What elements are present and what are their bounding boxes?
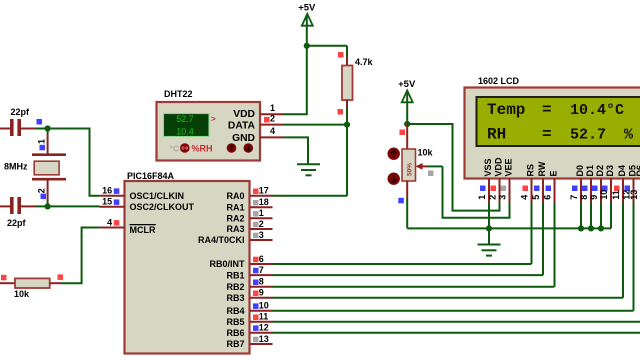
DHT22 mode button [180, 143, 190, 153]
net state square R1 right [58, 274, 64, 280]
svg-text:RS: RS [525, 164, 535, 177]
wire LCD D2 down [600, 203, 602, 229]
capacitor C1 22pf [0, 119, 36, 136]
svg-text:10k: 10k [14, 289, 30, 299]
wire RA0 row [273, 195, 348, 197]
svg-text:OSC2/CLKOUT: OSC2/CLKOUT [130, 202, 195, 212]
wire LCD VSS down [488, 203, 490, 229]
LCD pin 8 state square [582, 186, 588, 192]
svg-text:D6: D6 [635, 165, 640, 177]
svg-text:Temp: Temp [487, 101, 525, 119]
svg-text:15: 15 [102, 197, 112, 207]
pin 15 OSC2/CLKOUT stub [99, 206, 124, 208]
svg-text:2: 2 [488, 195, 498, 200]
resistor R1 10k [0, 278, 62, 288]
svg-text:4: 4 [520, 195, 530, 200]
pin 4 state square [114, 220, 120, 226]
LCD pin 9 D2 stub [600, 179, 602, 203]
svg-text:VDD: VDD [233, 109, 255, 120]
svg-text:11: 11 [259, 312, 269, 322]
svg-text:D3: D3 [605, 165, 615, 177]
svg-text:DHT22: DHT22 [164, 89, 193, 99]
pin 10 RB4 stub [250, 310, 273, 312]
svg-text:4.7k: 4.7k [355, 57, 374, 67]
svg-text:MCLR: MCLR [130, 225, 156, 235]
DHT22 up button [227, 143, 237, 153]
LCD pin 11 D4 stub [622, 179, 624, 203]
svg-text:8MHz: 8MHz [4, 162, 28, 172]
pin 17 state square [253, 189, 259, 195]
wire C1 to node OSC1 [36, 128, 48, 130]
svg-text:RH: RH [487, 126, 506, 144]
pin 13 RB7 stub [250, 343, 273, 345]
LCD screen [477, 97, 640, 146]
svg-text:2: 2 [259, 219, 264, 229]
svg-text:10: 10 [259, 301, 269, 311]
svg-text:RW: RW [537, 161, 547, 176]
svg-text:9: 9 [589, 195, 599, 200]
pin 2 RA3 stub [250, 228, 273, 230]
svg-text:RA3: RA3 [226, 224, 244, 234]
LCD pin 12 D5 stub [633, 179, 635, 203]
pin 7 RB1 stub [250, 274, 273, 276]
junction node OSC2 bottom [45, 203, 51, 209]
svg-text:DATA: DATA [228, 120, 256, 131]
svg-text:RB6: RB6 [226, 328, 244, 338]
svg-text:4: 4 [107, 217, 112, 227]
svg-text:7: 7 [259, 265, 264, 275]
svg-text:RB7: RB7 [226, 339, 244, 349]
svg-text:D1: D1 [585, 165, 595, 177]
wire bus to ground symbol [488, 228, 490, 243]
crystal X1 [32, 129, 66, 207]
junction bus D2 [598, 225, 604, 231]
power +5V pot [398, 79, 416, 102]
svg-text:OSC1/CLKIN: OSC1/CLKIN [130, 191, 185, 201]
svg-text:1: 1 [37, 139, 47, 144]
pin 8 state square [253, 280, 259, 286]
svg-text:10.4°C: 10.4°C [570, 102, 624, 119]
wire DHT22 DATA to node [284, 124, 347, 126]
svg-text:D4: D4 [617, 165, 627, 177]
svg-text:RB5: RB5 [226, 317, 244, 327]
wire LCD D4 down [622, 203, 624, 298]
capacitor C2 22pf [0, 197, 36, 214]
LCD pin 9 state square [592, 186, 598, 192]
junction node OSC1 top [45, 125, 51, 131]
wire +5V to DHT22 VDD [284, 46, 307, 114]
pin 7 state square [253, 268, 259, 274]
wire LCD D0 down [580, 203, 582, 229]
svg-text:=: = [542, 101, 552, 119]
wire node to PIC pin15 [36, 205, 99, 207]
wire bus up to LCD D3 [610, 203, 612, 229]
wire +5V stem [306, 14, 308, 46]
pin 8 RB2 stub [250, 286, 273, 288]
net state square R2 top [338, 52, 344, 58]
net state square RV1 wiper [428, 171, 434, 177]
LCD pin 1 state square [480, 186, 486, 192]
wire RB3 to D4 [273, 297, 624, 299]
junction +5V pot node [404, 121, 410, 127]
pin 1 state square [253, 211, 259, 217]
svg-text:RB4: RB4 [226, 306, 244, 316]
svg-text:3: 3 [498, 195, 508, 200]
junction bus D0 [578, 225, 584, 231]
svg-text:3: 3 [259, 230, 264, 240]
svg-text:RA2: RA2 [226, 214, 244, 224]
wire DHT22 GND to ground [284, 137, 308, 163]
sensor DHT22 body [157, 102, 261, 161]
svg-text:4: 4 [270, 126, 275, 136]
svg-text:8: 8 [259, 277, 264, 287]
wire RV1 wiper to LCD VEE [443, 166, 510, 217]
pin 18 state square [253, 200, 259, 206]
svg-text:°C: °C [170, 143, 180, 153]
LCD pin 1 VSS stub [488, 179, 490, 203]
LCD pin 4 RS stub [531, 179, 533, 203]
wire +5V to LCD VDD [407, 124, 499, 211]
LCD pin 12 state square [625, 186, 631, 192]
svg-text:5: 5 [531, 195, 541, 200]
svg-text:>: > [211, 114, 216, 123]
svg-text:52.7: 52.7 [176, 114, 194, 124]
wire to R2 top [346, 46, 348, 57]
RV1 down button [388, 173, 400, 185]
pin 1 RA2 stub [250, 217, 273, 219]
svg-text:VSS: VSS [483, 158, 493, 176]
DHT22 pin 4 GND stub [260, 136, 284, 138]
svg-text:22pf: 22pf [11, 107, 31, 117]
pin 16 OSC1/CLKIN stub [99, 195, 124, 197]
wire RB5 to D6 [273, 321, 640, 323]
LCD pin 2 state square [491, 186, 497, 192]
svg-text:RB0/INT: RB0/INT [209, 259, 245, 269]
svg-text:12: 12 [259, 323, 269, 333]
pin 12 RB6 stub [250, 332, 273, 334]
svg-text:GND: GND [232, 133, 255, 144]
wire DATA down to RA0 [346, 125, 348, 196]
svg-text:D0: D0 [575, 165, 585, 177]
svg-text:6: 6 [259, 254, 264, 264]
LCD pin 4 state square [523, 186, 529, 192]
junction DATA node [344, 122, 350, 128]
svg-text:52.7 %: 52.7 % [570, 127, 634, 144]
LCD pin 5 state square [534, 186, 540, 192]
ground LCD [478, 245, 501, 256]
potentiometer RV1 10k [402, 124, 443, 198]
pin 15 state square [114, 199, 120, 205]
DHT22 pin 1 VDD stub [260, 113, 284, 115]
net 1 state square [40, 145, 46, 151]
LCD pin 3 state square [501, 186, 507, 192]
svg-text:+5V: +5V [298, 2, 316, 13]
svg-text:1: 1 [477, 195, 487, 200]
pin 11 state square [253, 315, 259, 321]
LCD pin 6 state square [546, 186, 552, 192]
svg-text:13: 13 [629, 190, 639, 200]
wire node to PIC pin16 [48, 129, 100, 196]
svg-text:+5V: +5V [398, 79, 416, 90]
net state square RV1 bottom [398, 198, 404, 204]
svg-text:6: 6 [543, 195, 553, 200]
svg-text:VDD: VDD [493, 157, 503, 177]
svg-text:=: = [542, 126, 552, 144]
pin 11 RB5 stub [250, 321, 273, 323]
pin 18 RA1 stub [250, 206, 273, 208]
wire R2 bottom to DATA node [346, 108, 348, 125]
wire +5V pot stem [406, 91, 408, 125]
svg-text:D2: D2 [595, 165, 605, 177]
net state square at C1 [37, 119, 43, 125]
net state square R1 left [1, 275, 7, 281]
svg-text:RB3: RB3 [226, 293, 244, 303]
wire RB6 to D7 [273, 332, 640, 334]
svg-text:50%: 50% [407, 163, 414, 176]
wire +5V to R2 [307, 45, 347, 47]
svg-text:18: 18 [259, 197, 269, 207]
junction bus VSS [486, 225, 492, 231]
wire R1 to MCLR [62, 228, 99, 284]
DHT22 pin 2 DATA stub [260, 124, 284, 126]
svg-text:1: 1 [259, 208, 264, 218]
svg-text:1602 LCD: 1602 LCD [478, 76, 520, 86]
DHT22 down button [244, 143, 254, 153]
LCD pin 11 state square [614, 186, 620, 192]
LCD pin 5 RW stub [542, 179, 544, 203]
svg-text:RB1: RB1 [226, 270, 244, 280]
wire RB2 to E [273, 286, 555, 288]
svg-text:PIC16F84A: PIC16F84A [127, 171, 175, 181]
LCD pin 6 E stub [554, 179, 556, 203]
LCD pin 7 D0 stub [580, 179, 582, 203]
pin 4 MCLR stub [99, 227, 124, 229]
pin 9 RB3 stub [250, 297, 273, 299]
ground DHT22 [297, 164, 320, 175]
svg-text:17: 17 [259, 186, 269, 196]
svg-text:RA4/T0CKI: RA4/T0CKI [198, 235, 245, 245]
svg-text:8: 8 [579, 195, 589, 200]
svg-text:2: 2 [37, 188, 47, 193]
resistor R2 4.7k [342, 57, 353, 108]
svg-text:2: 2 [270, 113, 275, 123]
pin 9 state square [253, 291, 259, 297]
svg-text:10: 10 [599, 190, 609, 200]
pin 3 state square [253, 233, 259, 239]
net state square pot top [400, 130, 406, 136]
junction +5V node [304, 43, 310, 49]
pin 2 state square [253, 222, 259, 228]
svg-text:RA0: RA0 [226, 191, 244, 201]
wire ground bus [407, 227, 611, 229]
pin 16 state square [114, 188, 120, 194]
LCD pin 8 D1 stub [590, 179, 592, 203]
pin 6 state square [253, 257, 259, 263]
DHT22 pin 2 state square [264, 117, 270, 123]
pin 13 state square [253, 337, 259, 343]
DHT22 LCD readout [164, 114, 210, 137]
wire RV1 bottom to ground bus [406, 198, 408, 228]
wire LCD D1 down [590, 203, 592, 229]
svg-text:10k: 10k [418, 148, 434, 158]
svg-text:10.4: 10.4 [176, 126, 194, 136]
pin 3 RA4/T0CKI stub [250, 239, 273, 241]
svg-text:E: E [548, 170, 558, 176]
svg-text:16: 16 [102, 186, 112, 196]
wire RB4 to D5 [273, 310, 634, 312]
LCD pin 7 state square [572, 186, 578, 192]
display LCD1 1602 body [465, 88, 640, 179]
wire LCD RW down [542, 203, 544, 276]
svg-text:%RH: %RH [192, 144, 213, 154]
svg-text:VEE: VEE [503, 158, 513, 176]
chip U1 PIC16F84A body [125, 181, 250, 354]
wire RB0 to RS [273, 263, 532, 265]
wire LCD D5 down [633, 203, 635, 311]
wire LCD RS down [531, 203, 533, 265]
LCD pin 3 VEE stub [509, 179, 511, 203]
net 2 state square [41, 194, 47, 200]
wire LCD E down [554, 203, 556, 287]
svg-text:RA1: RA1 [226, 203, 244, 213]
pin 12 state square [253, 325, 259, 331]
power +5V main [298, 2, 316, 25]
LCD pin 2 VDD stub [499, 179, 501, 203]
junction bus D1 [588, 225, 594, 231]
LCD pin 10 state square [602, 186, 608, 192]
svg-text:1: 1 [270, 103, 275, 113]
RV1 up button [388, 148, 400, 160]
LCD pin 10 D3 stub [610, 179, 612, 203]
pin 10 state square [253, 303, 259, 309]
svg-text:9: 9 [259, 288, 264, 298]
wire RB1 to RW [273, 274, 544, 276]
net state square R2 bottom [338, 109, 344, 115]
svg-text:13: 13 [259, 334, 269, 344]
pin 6 RB0/INT stub [250, 263, 273, 265]
svg-text:22pf: 22pf [7, 218, 27, 228]
pin 17 RA0 stub [250, 195, 273, 197]
svg-text:11: 11 [611, 190, 621, 200]
svg-text:RB2: RB2 [226, 282, 244, 292]
svg-text:7: 7 [569, 195, 579, 200]
